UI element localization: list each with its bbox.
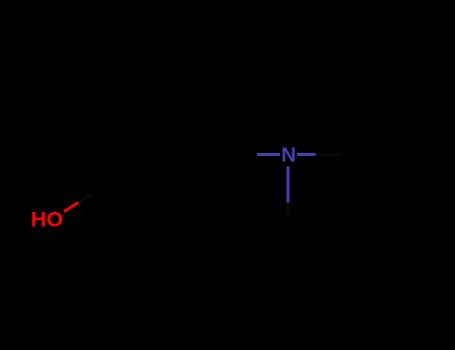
bond O-C (red stub) xyxy=(64,202,79,211)
wire: chain bond continuation below N xyxy=(287,202,290,215)
svg-text:HO: HO xyxy=(31,208,63,232)
carbon skeleton (near-black, as in source) xyxy=(78,155,341,216)
bond N-C (blue stub right) xyxy=(297,153,316,156)
wire: bond from O-stub to chain carbon xyxy=(78,194,91,203)
bond N-C (blue stub down) xyxy=(287,166,290,202)
bond N-CH3 (blue stub left) xyxy=(257,153,280,156)
svg-text:N: N xyxy=(281,144,296,167)
wire: chain bond continuation right of N xyxy=(316,153,342,156)
